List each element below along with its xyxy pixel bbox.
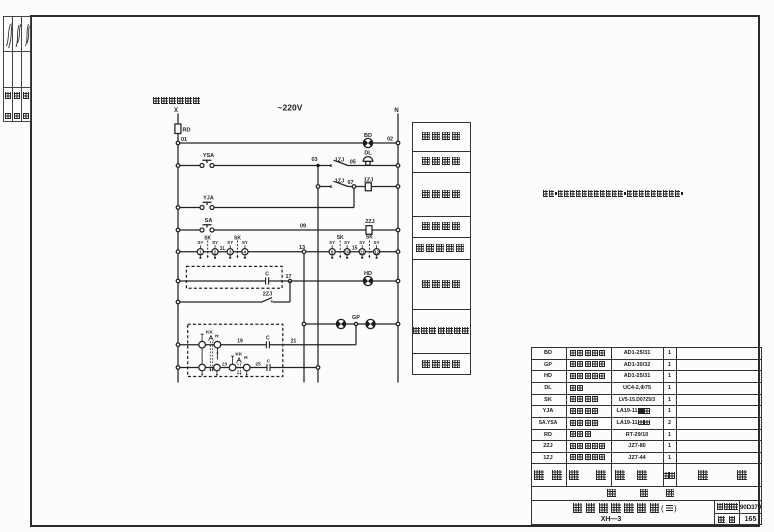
svg-text:10: 10 — [345, 250, 350, 255]
box 运行信号 — [412, 309, 471, 310]
title block labels — [5, 92, 11, 99]
svg-text:SY: SY — [242, 240, 248, 245]
svg-text:19: 19 — [237, 339, 243, 345]
row SA.YSA 试验按钮 LA19-11 — [531, 420, 566, 426]
lamp SY10 — [344, 240, 350, 259]
svg-text:C: C — [267, 358, 271, 364]
lamp SY12 — [374, 240, 380, 259]
box 试验灯光 — [412, 237, 471, 238]
svg-text:GP: GP — [352, 315, 360, 321]
contact 2ZJ — [261, 291, 272, 302]
svg-text:02: 02 — [387, 137, 393, 143]
node X-L8 — [176, 366, 180, 370]
wire L7 (19-21 row) — [178, 344, 356, 346]
row BD 白色信号灯 AD1-25/31 — [531, 350, 566, 356]
svg-text:RD: RD — [183, 128, 191, 134]
row 1ZJ 中间继电器 JZ7-44 — [531, 455, 566, 461]
note 附注 — [543, 190, 683, 197]
row YJA 解除按钮 LA19-11 — [531, 408, 566, 414]
switch KK (lower) — [231, 351, 248, 375]
svg-text:SK: SK — [234, 236, 241, 242]
图集号 90D370 — [717, 503, 738, 510]
页号 165 — [718, 516, 735, 523]
node X-L6 — [176, 279, 180, 283]
node X-L5 — [176, 250, 180, 254]
svg-text:SY: SY — [329, 240, 335, 245]
box 解除音响 — [412, 216, 471, 217]
svg-text:KK: KK — [206, 329, 213, 335]
wire L2b (1ZJ relay row) — [318, 186, 398, 188]
wire L1 (01-02) — [178, 142, 398, 144]
node v304-GP — [302, 322, 306, 326]
box 电源监视 — [412, 151, 471, 152]
wire: N rail — [397, 114, 399, 383]
lamp BD (white signal lamp) — [363, 133, 372, 148]
node v318-L2b — [316, 185, 320, 189]
pushbutton YJA — [200, 196, 214, 210]
node GP — [354, 322, 357, 325]
contact 1ZJ (on L2) — [331, 158, 348, 168]
row 2ZJ 中间继电器 JZ7-80 — [531, 443, 566, 449]
svg-text:23: 23 — [222, 362, 228, 368]
svg-text:1ZJ: 1ZJ — [335, 158, 344, 164]
box 试验光字牌 — [412, 259, 471, 260]
row SK 试验开关 LV5-15.D0725/3 — [531, 397, 566, 403]
XH-3 — [586, 516, 636, 523]
box 事故信号光字牌 — [412, 353, 471, 354]
svg-text:17: 17 — [285, 274, 291, 280]
table row lines — [531, 359, 763, 360]
node N-GP — [396, 322, 400, 326]
lamp HD (red signal lamp) — [363, 271, 372, 286]
wire GP row (accident light row) — [304, 323, 398, 325]
lamp SY1 — [197, 240, 203, 259]
node X-L6b — [176, 300, 180, 304]
pushbutton YSA — [200, 153, 214, 168]
svg-text:YSA: YSA — [203, 153, 214, 159]
node N-L6 — [396, 279, 400, 283]
svg-text:1L: 1L — [220, 246, 226, 252]
relay coil 2ZJ — [365, 219, 374, 234]
svg-text:25: 25 — [255, 362, 261, 368]
wire: node 07 to L3 — [353, 188, 355, 207]
rail node circles — [176, 141, 400, 369]
svg-text:11: 11 — [360, 250, 365, 255]
row GP 无色光字牌 AD1-30/32 — [531, 362, 566, 368]
capacitor C (L8) — [267, 358, 271, 371]
node 01 — [176, 141, 180, 145]
svg-text:KK: KK — [235, 351, 242, 357]
node X-L4 — [176, 228, 180, 232]
contact circle K2b — [214, 364, 221, 371]
node N-L4 — [396, 228, 400, 232]
node 13 — [302, 250, 306, 254]
svg-text:07: 07 — [347, 180, 353, 186]
contact circle K1a — [199, 341, 206, 348]
svg-text:SY: SY — [212, 240, 218, 245]
wire L2 (test sound row) — [178, 165, 398, 167]
svg-text:SA: SA — [205, 218, 213, 224]
svg-text:SK: SK — [366, 235, 373, 241]
wire L8 (23-25 row) — [178, 367, 318, 369]
svg-text:2ZJ: 2ZJ — [263, 291, 272, 297]
contact circle K2c — [229, 364, 236, 371]
svg-text:01: 01 — [181, 137, 187, 143]
node on v318 (L8 end) — [316, 366, 320, 370]
svg-text:SK: SK — [204, 236, 211, 242]
lamp GP-left — [336, 319, 345, 328]
wire: X rail — [177, 114, 179, 383]
svg-text:SY: SY — [344, 240, 350, 245]
lamp SY3 — [227, 240, 233, 259]
集中信号原理图 (三) — [573, 503, 659, 513]
svg-text:BD: BD — [364, 133, 372, 139]
contact 1ZJ (on L2b) — [331, 179, 348, 189]
svg-text:05: 05 — [350, 160, 356, 166]
wire: 17 drop — [289, 281, 291, 302]
contact stubs below L8 — [201, 371, 248, 376]
svg-text:X: X — [174, 108, 178, 114]
bell DL — [363, 151, 373, 166]
lamp SY11 — [359, 240, 365, 259]
fuse RD — [175, 124, 181, 134]
svg-text:SY: SY — [227, 240, 233, 245]
lamp SY9 — [329, 240, 335, 259]
wire L4 (test light row, 09) — [178, 229, 398, 231]
contact circle K1b — [214, 341, 221, 348]
wire: vertical 304 (13 line down) — [303, 252, 305, 383]
svg-text:1ZJ: 1ZJ — [364, 178, 373, 184]
contact circle K2d — [243, 364, 250, 371]
node N-L5 — [396, 250, 400, 254]
node 07 — [352, 185, 356, 189]
svg-text:SY: SY — [197, 240, 203, 245]
node N-L2 — [396, 164, 400, 168]
设 备 表 — [607, 489, 616, 498]
relay coil 1ZJ — [364, 178, 373, 191]
svg-text:1ZJ: 1ZJ — [335, 179, 344, 185]
node N-L2b — [396, 185, 400, 189]
dashed box (accident contacts, project design) — [188, 324, 283, 376]
wire L6b (2ZJ contact row) — [178, 301, 290, 303]
title block cells — [714, 500, 715, 526]
node 02 — [396, 141, 400, 145]
svg-text:H: H — [215, 333, 219, 339]
title block (top-left, signature strip) — [3, 16, 31, 122]
svg-text:DL: DL — [364, 151, 372, 157]
wire: vertical 318 (from junction 03 down) — [317, 166, 319, 383]
svg-text:C: C — [266, 336, 270, 342]
svg-text:09: 09 — [300, 224, 306, 230]
svg-text:13: 13 — [299, 245, 305, 251]
svg-text:H: H — [244, 355, 248, 361]
source label 来自切换电源 — [153, 97, 200, 104]
header 符号 名称 型号 数量 备注 — [534, 470, 544, 480]
svg-text:~220V: ~220V — [278, 103, 303, 113]
switch SK dashed link (right pair) — [337, 235, 374, 259]
svg-text:YJA: YJA — [203, 196, 214, 202]
pushbutton SA — [200, 218, 214, 232]
dashed box (run signal, project design) — [186, 266, 282, 288]
lamp GP-right — [366, 319, 375, 328]
svg-text:HD: HD — [364, 271, 372, 277]
equipment table 设备表 — [531, 347, 763, 525]
capacitor C (L7) — [266, 336, 270, 349]
svg-text:15: 15 — [352, 245, 358, 251]
wire L5 (test lamps row) — [178, 251, 398, 253]
row HD 红色信号灯 AD1-25/31 — [531, 373, 566, 379]
svg-text:21: 21 — [291, 339, 297, 345]
contact circle K2a — [199, 364, 206, 371]
svg-text:2ZJ: 2ZJ — [365, 219, 374, 225]
wire: GP to L7 — [355, 326, 357, 345]
right label column — [412, 122, 471, 375]
svg-text:SY: SY — [359, 240, 365, 245]
box 事故音响 — [422, 360, 460, 368]
junction 03 — [316, 164, 319, 167]
box 试验音响 — [412, 172, 471, 173]
signatures — [3, 16, 31, 122]
svg-text:03: 03 — [311, 157, 317, 163]
wire L3 (release row) — [178, 207, 354, 209]
svg-text:SY: SY — [374, 240, 380, 245]
node 17 — [288, 279, 291, 282]
svg-text:SK: SK — [337, 235, 344, 241]
svg-text:C: C — [265, 272, 269, 278]
capacitor C (L6) — [265, 272, 269, 285]
row DL 电铃 UC4-2,Φ75 — [531, 385, 566, 391]
svg-text:N: N — [394, 108, 398, 114]
switch KK (upper) — [201, 329, 219, 371]
svg-text:12: 12 — [374, 250, 379, 255]
node X-L3 — [176, 206, 180, 210]
node X-L2 — [176, 164, 180, 168]
row RD 熔断器 RT-29/10 — [531, 432, 566, 438]
node X-L7 — [176, 343, 180, 347]
lamp SY2 — [212, 240, 218, 259]
table column lines — [566, 347, 567, 486]
wire L6 (run signal HD row) — [178, 280, 398, 282]
switch SK dashed link (left pair) — [204, 236, 241, 259]
lamp SY4 — [242, 240, 248, 259]
